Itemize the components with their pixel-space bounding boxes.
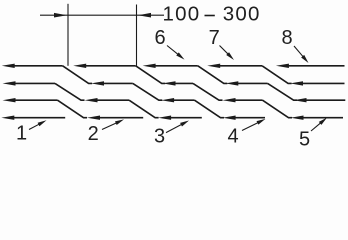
svg-text:7: 7 <box>209 27 220 49</box>
sheet strip 12 row 2: arrow + shaft <box>91 81 104 85</box>
lap diagonal <box>63 66 93 84</box>
leader arrow for label 4 <box>242 122 259 131</box>
lap diagonal <box>263 100 293 118</box>
svg-text:5: 5 <box>299 129 310 151</box>
sheet strip 5 row 4: arrow + shaft <box>291 116 304 120</box>
sheet strip 15 row 2: arrow + shaft <box>290 81 303 85</box>
sheet strip 17 row 3: arrow + shaft <box>85 98 98 102</box>
lap diagonal <box>55 83 85 100</box>
sheet strip 11 row 2: arrow + shaft <box>3 81 16 85</box>
svg-text:8: 8 <box>281 27 292 49</box>
sheet strip 1 row 4: arrow + shaft <box>1 116 14 120</box>
leader arrow for label 5 <box>311 122 322 131</box>
sheet strip 4 row 4: arrow + shaft <box>223 116 236 120</box>
svg-text:300: 300 <box>223 3 261 26</box>
leader arrow for label 8 <box>294 46 304 58</box>
sheet strip 2 row 4: arrow + shaft <box>87 116 100 120</box>
lap diagonal <box>195 100 225 118</box>
sheet strip 16 row 3: arrow + shaft <box>3 98 16 102</box>
leader arrow for label 2 <box>102 122 118 129</box>
leader arrow for label 6 <box>167 46 179 56</box>
lap diagonal <box>136 66 166 84</box>
sheet strip 8 row 1: arrow + shaft <box>143 64 156 68</box>
sheet strip 19 row 3: arrow + shaft <box>223 98 236 102</box>
lap diagonal <box>193 83 223 100</box>
sheet strip 9 row 1: arrow + shaft <box>207 64 220 68</box>
svg-text:100: 100 <box>163 3 201 26</box>
leader arrow for label 3 <box>166 124 183 133</box>
sheet strip 18 row 3: arrow + shaft <box>161 98 174 102</box>
svg-text:4: 4 <box>227 126 238 148</box>
sheet strip 14 row 2: arrow + shaft <box>225 81 238 85</box>
sheet strip 20 row 3: arrow + shaft <box>294 98 307 102</box>
lap diagonal <box>268 83 298 100</box>
lap diagonal <box>129 100 159 118</box>
lap diagonal <box>133 83 163 100</box>
leader arrow for label 7 <box>220 46 230 56</box>
dimension extension line left <box>67 4 69 66</box>
sheet strip 13 row 2: arrow + shaft <box>163 81 176 85</box>
sheet strip 3 row 4: arrow + shaft <box>158 116 171 120</box>
lap diagonal <box>198 66 228 84</box>
lap diagonal <box>262 66 292 84</box>
dimension arrow pointing right <box>54 13 67 18</box>
dimension arrow pointing left <box>138 13 151 18</box>
svg-text:1: 1 <box>16 123 27 145</box>
svg-text:3: 3 <box>154 126 165 148</box>
lap diagonal <box>58 100 88 118</box>
sheet strip 10 row 1: arrow + shaft <box>276 64 289 68</box>
leader arrow for label 1 <box>29 124 40 130</box>
svg-text:6: 6 <box>154 27 165 49</box>
dimension line <box>40 14 164 16</box>
dimension extension line right <box>136 5 138 66</box>
sheet strip 7 row 1: arrow + shaft <box>73 64 86 68</box>
sheet strip 6 row 1: arrow + shaft <box>2 64 15 68</box>
svg-text:2: 2 <box>88 123 99 145</box>
